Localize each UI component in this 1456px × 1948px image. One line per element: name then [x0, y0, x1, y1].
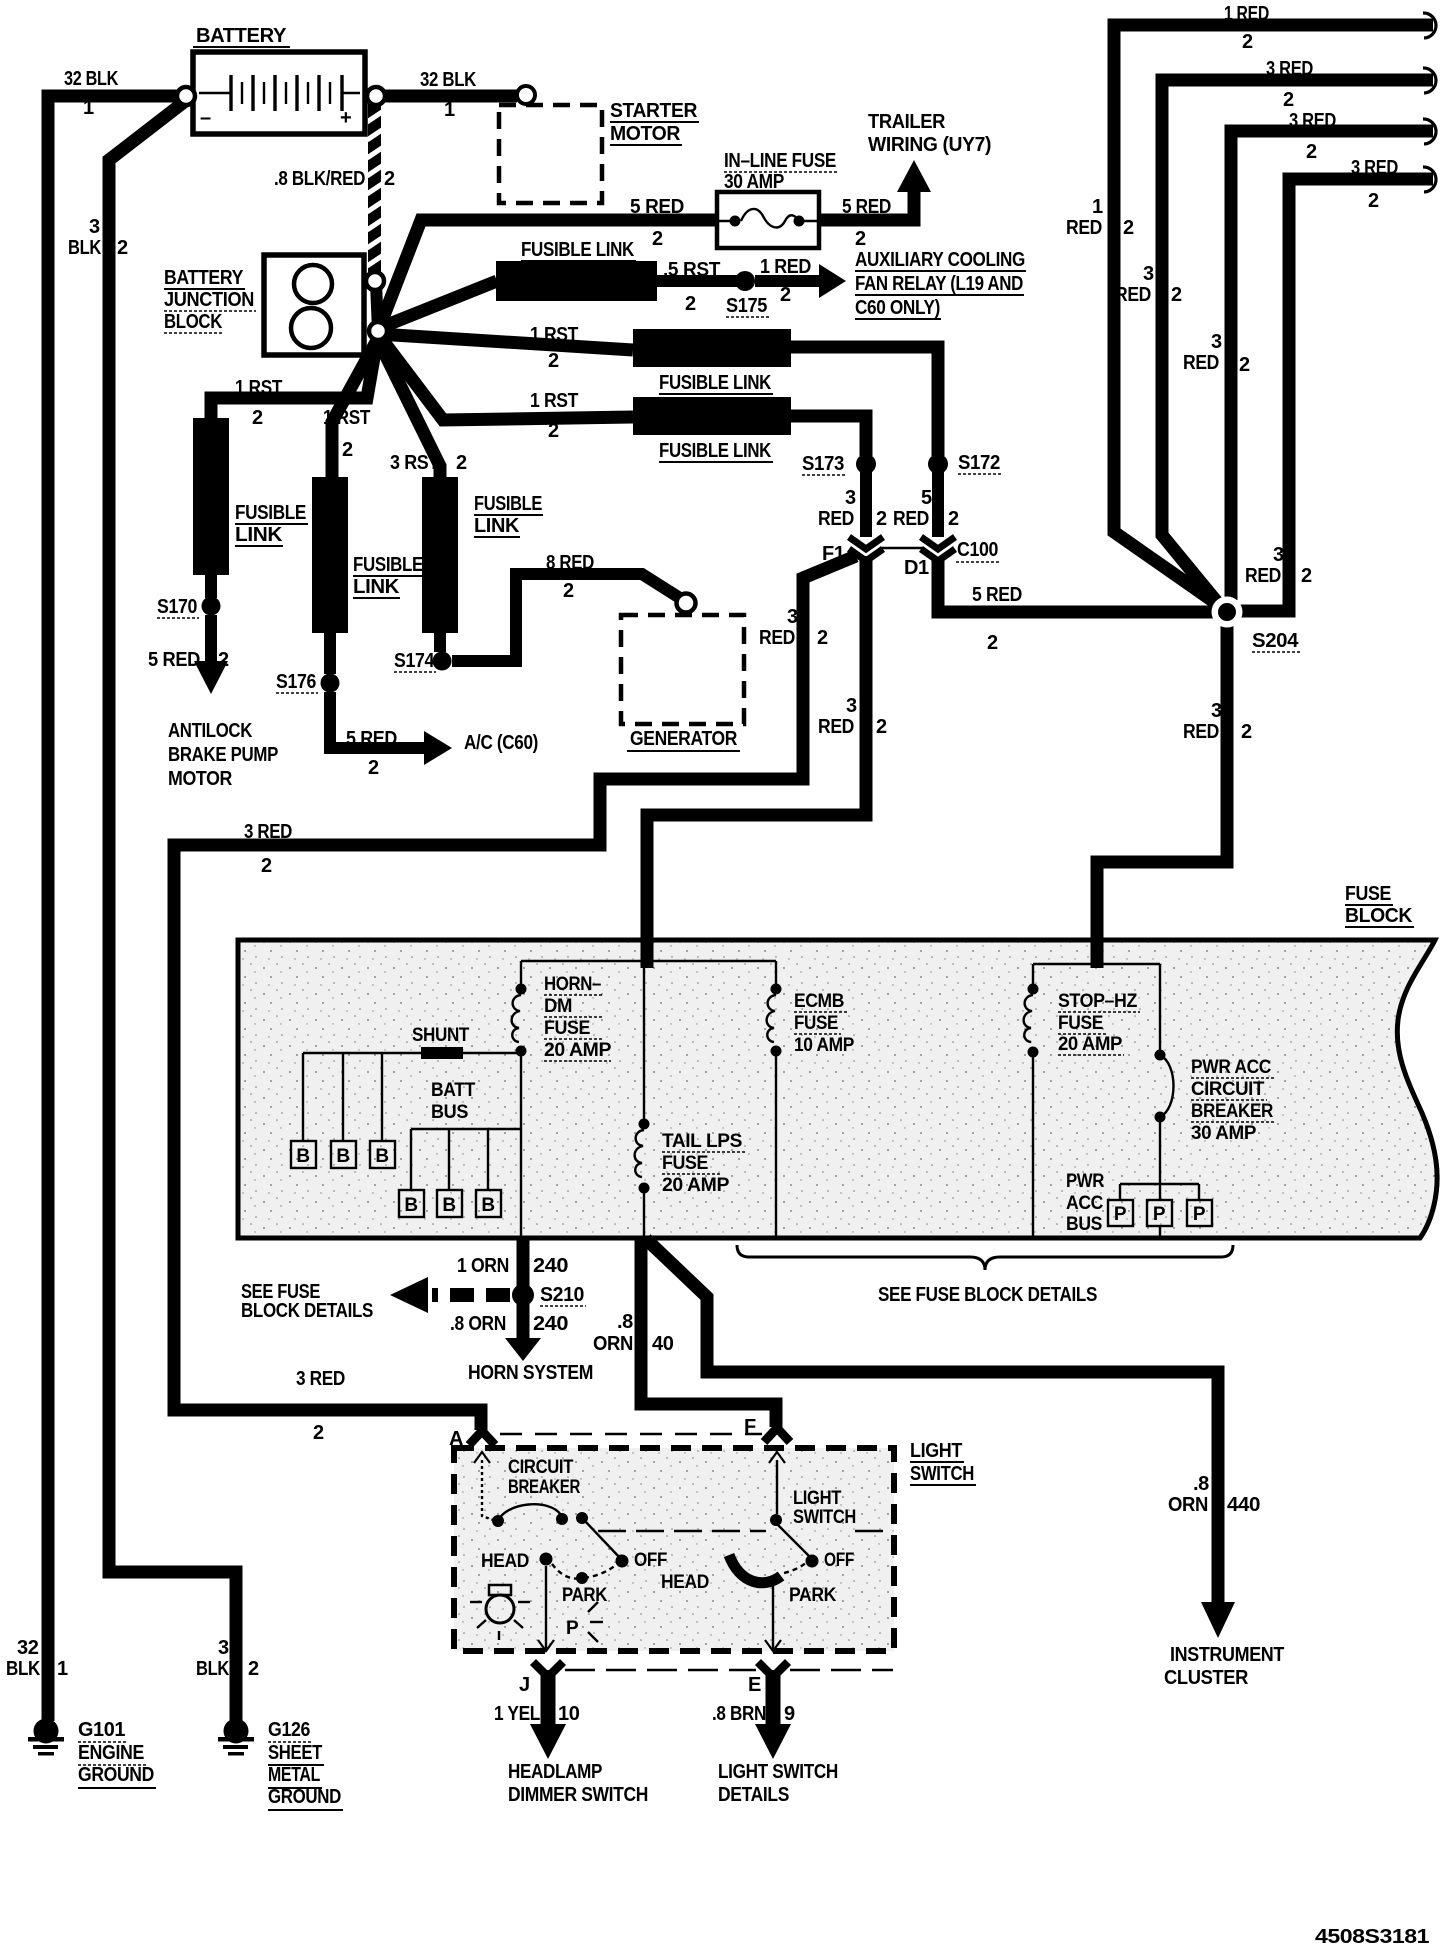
svg-text:OFF: OFF [634, 1550, 667, 1571]
svg-text:2: 2 [1171, 284, 1182, 306]
svg-text:2: 2 [876, 716, 887, 738]
svg-text:5 RED: 5 RED [148, 649, 200, 671]
svg-text:32: 32 [17, 1637, 39, 1659]
svg-text:RED: RED [1115, 284, 1151, 306]
svg-text:2: 2 [817, 627, 828, 649]
svg-text:1: 1 [444, 99, 455, 121]
svg-text:BRAKE PUMP: BRAKE PUMP [168, 744, 278, 766]
svg-text:INSTRUMENT: INSTRUMENT [1170, 1644, 1284, 1666]
svg-text:E: E [748, 1674, 761, 1696]
svg-text:S176: S176 [276, 671, 316, 693]
svg-text:METAL: METAL [268, 1764, 320, 1786]
svg-text:2: 2 [1239, 354, 1250, 376]
wire 5 RED C100 to S204 [938, 559, 1218, 654]
svg-text:RED: RED [818, 508, 854, 530]
svg-text:FUSIBLE LINK: FUSIBLE LINK [659, 440, 772, 462]
svg-text:BUS: BUS [431, 1102, 468, 1123]
wire 3 RED F1 branch to light switch A [174, 556, 856, 1444]
svg-text:FUSIBLE: FUSIBLE [353, 554, 423, 576]
svg-text:FUSIBLE LINK: FUSIBLE LINK [659, 372, 772, 394]
wire .5 RST fusible link branch [377, 281, 497, 329]
svg-text:2: 2 [548, 420, 559, 442]
terminal A chevron [449, 1428, 495, 1450]
pwr acc bus P terminals [1066, 1171, 1212, 1236]
svg-text:S210: S210 [540, 1284, 584, 1306]
svg-text:3: 3 [218, 1637, 229, 1659]
svg-text:S175: S175 [726, 295, 767, 317]
connector C100 / D1 [881, 537, 1000, 579]
svg-text:2: 2 [1241, 721, 1252, 743]
splice S176 [276, 633, 340, 693]
svg-text:P: P [1153, 1204, 1166, 1225]
battery terminal node right [367, 87, 385, 105]
svg-text:RED: RED [1245, 565, 1281, 587]
svg-text:2: 2 [1368, 190, 1379, 212]
svg-text:FUSE: FUSE [1345, 883, 1391, 905]
svg-text:BLOCK DETAILS: BLOCK DETAILS [241, 1300, 373, 1322]
svg-text:BLOCK: BLOCK [164, 311, 223, 333]
svg-text:PWR: PWR [1066, 1171, 1105, 1192]
svg-text:FUSIBLE: FUSIBLE [235, 502, 306, 524]
svg-text:LINK: LINK [353, 576, 400, 598]
svg-text:BLOCK: BLOCK [1345, 905, 1413, 927]
wire 8 RED S174 to generator [452, 552, 683, 661]
wire 3 RED top connector 4 [1240, 157, 1433, 611]
svg-text:P: P [566, 1618, 579, 1639]
wire .8 BLK/RED fusible link (hatched) [274, 103, 395, 275]
wire S172 to C100 [932, 472, 944, 537]
svg-text:2: 2 [313, 1422, 324, 1444]
svg-text:2: 2 [261, 855, 272, 877]
svg-text:3 RED: 3 RED [1266, 58, 1313, 80]
svg-text:P: P [1193, 1204, 1206, 1225]
svg-text:RED: RED [1066, 217, 1102, 239]
node: battery junction feed [376, 283, 378, 331]
shunt [412, 1025, 470, 1059]
splice S170 [157, 575, 221, 618]
svg-text:RED: RED [1183, 352, 1219, 374]
svg-text:3: 3 [787, 606, 798, 628]
svg-text:J: J [519, 1674, 530, 1696]
ID 4508S3181 [1315, 1926, 1429, 1948]
fusible link bar 2 (1 RST) [633, 329, 791, 394]
svg-text:1 ORN: 1 ORN [457, 1255, 509, 1277]
svg-text:2: 2 [456, 452, 467, 474]
wire dashed to see fuse block details [241, 1277, 510, 1322]
wire .8 ORN S210 to horn system [450, 1304, 593, 1384]
shunt bus row 1 [303, 1052, 521, 1054]
svg-text:32 BLK: 32 BLK [64, 68, 119, 90]
svg-text:GENERATOR: GENERATOR [630, 728, 738, 750]
node: fusible link tap [366, 272, 384, 290]
svg-text:240: 240 [533, 1313, 568, 1335]
svg-text:AUXILIARY COOLING: AUXILIARY COOLING [855, 249, 1025, 271]
svg-text:A: A [449, 1428, 463, 1450]
svg-text:3 RED: 3 RED [1351, 157, 1398, 179]
svg-text:2: 2 [685, 293, 696, 315]
svg-text:.8: .8 [1193, 1473, 1209, 1495]
svg-text:240: 240 [533, 1255, 568, 1277]
divider dashed line inside light switch [598, 1530, 889, 1532]
svg-text:ORN: ORN [1168, 1494, 1208, 1516]
splice S175 [726, 271, 769, 317]
svg-text:–: – [200, 107, 211, 129]
wire 3 RED top connector 3 [1183, 110, 1433, 600]
svg-text:DETAILS: DETAILS [718, 1784, 789, 1806]
svg-text:B: B [336, 1146, 349, 1167]
svg-text:FUSE: FUSE [662, 1153, 708, 1174]
svg-text:C100: C100 [957, 539, 998, 561]
splice S172 [893, 452, 1002, 530]
svg-text:HEAD: HEAD [661, 1572, 709, 1593]
svg-text:STOP–HZ: STOP–HZ [1058, 991, 1138, 1012]
svg-text:PWR ACC: PWR ACC [1191, 1057, 1272, 1078]
batt bus B terminals row 1 [291, 1053, 395, 1168]
svg-text:HORN–: HORN– [544, 974, 601, 995]
splice S204 [1212, 597, 1301, 653]
horn-dm fuse HORN-DM 20A [512, 961, 612, 1236]
svg-text:B: B [481, 1195, 494, 1216]
svg-text:2: 2 [117, 237, 128, 259]
svg-text:BATTERY: BATTERY [164, 267, 244, 289]
svg-text:B: B [404, 1195, 417, 1216]
svg-text:FUSE: FUSE [794, 1013, 838, 1034]
svg-text:SHUNT: SHUNT [412, 1025, 470, 1046]
svg-text:WIRING (UY7): WIRING (UY7) [868, 134, 991, 156]
svg-text:ORN: ORN [593, 1333, 633, 1355]
wire 5 RED S176 to A/C [330, 692, 538, 779]
svg-text:3: 3 [1143, 263, 1154, 285]
wire 3 RED top connector 2 [1115, 58, 1433, 608]
svg-text:1 RST: 1 RST [235, 377, 282, 399]
svg-text:BLK: BLK [68, 237, 102, 259]
svg-text:ENGINE: ENGINE [78, 1742, 144, 1764]
fuse block bus 2 (stop-hz feed) [1033, 963, 1160, 965]
svg-text:SEE FUSE BLOCK DETAILS: SEE FUSE BLOCK DETAILS [878, 1284, 1097, 1306]
svg-text:LIGHT SWITCH: LIGHT SWITCH [718, 1761, 838, 1783]
wire 1 RST junction to fusible link bar 6 (left) [211, 340, 377, 429]
svg-text:HORN SYSTEM: HORN SYSTEM [468, 1362, 593, 1384]
svg-text:3: 3 [1211, 700, 1222, 722]
svg-text:2: 2 [1283, 89, 1294, 111]
wire 3 BLK battery to G126 sheet metal ground [68, 102, 259, 1721]
svg-text:CLUSTER: CLUSTER [1164, 1667, 1249, 1689]
svg-text:C60 ONLY): C60 ONLY) [855, 297, 940, 319]
headlamp symbol [470, 1585, 530, 1640]
svg-text:MOTOR: MOTOR [610, 123, 681, 145]
ecmb fuse ECMB 10A [767, 961, 855, 1236]
wire 3 RST junction to fusible link bar 4 [377, 338, 467, 478]
svg-text:BATTERY: BATTERY [196, 25, 287, 47]
starter motor box [499, 100, 699, 203]
generator box [621, 615, 744, 751]
svg-text:FUSE: FUSE [544, 1018, 590, 1039]
svg-text:5 RED: 5 RED [842, 196, 891, 218]
svg-text:1: 1 [83, 97, 94, 119]
svg-text:8 RED: 8 RED [546, 552, 594, 574]
svg-text:3: 3 [1211, 331, 1222, 353]
svg-text:GROUND: GROUND [268, 1786, 341, 1808]
svg-text:2: 2 [855, 228, 866, 250]
fusible link bar 5 (1 RST, middle vertical) [312, 477, 425, 633]
svg-text:SWITCH: SWITCH [793, 1507, 856, 1528]
svg-text:20 AMP: 20 AMP [662, 1175, 730, 1196]
svg-text:3 RST: 3 RST [390, 452, 439, 474]
terminal J chevron [519, 1662, 563, 1696]
svg-text:32 BLK: 32 BLK [420, 69, 477, 91]
connector hook 4 [1423, 167, 1436, 192]
fuse block body [238, 883, 1437, 1238]
terminal E chevron [565, 1662, 893, 1696]
svg-text:440: 440 [1227, 1494, 1260, 1516]
wire 1 RED top connector [1066, 3, 1433, 606]
terminal F chevron [500, 1416, 790, 1442]
battery terminal node left [177, 87, 195, 105]
svg-text:2: 2 [1242, 31, 1253, 53]
wire .8 BRN 9 to light switch details [712, 1670, 838, 1806]
wire 5 RED in-line fuse to trailer wiring UY7 [816, 111, 991, 250]
ground G101 (engine ground) [28, 1719, 156, 1789]
svg-text:LINK: LINK [474, 515, 520, 537]
head/park selector (left, dimmer) [481, 1551, 617, 1651]
fusible link bar 3 (1 RST) [633, 397, 791, 462]
wire 1 RST junction to fusible link bar 5 (middle) [323, 342, 376, 478]
svg-text:RED: RED [893, 508, 929, 530]
wire 5 RED S170 to antilock brake pump motor [148, 615, 278, 790]
wire 32 BLK battery to G101 engine ground [6, 68, 180, 1721]
svg-text:3 RED: 3 RED [296, 1368, 345, 1390]
splice S174 [394, 633, 452, 672]
svg-text:2: 2 [876, 508, 887, 530]
svg-text:RED: RED [818, 716, 854, 738]
svg-text:3 RED: 3 RED [1289, 110, 1336, 132]
fusible link bar 1 (.5 RST) [496, 239, 657, 301]
svg-text:1: 1 [57, 1658, 68, 1680]
svg-text:OFF: OFF [824, 1550, 854, 1571]
connector hook 3 [1423, 119, 1436, 144]
svg-text:CIRCUIT: CIRCUIT [508, 1457, 574, 1478]
wire 32 BLK battery to starter motor [382, 69, 517, 121]
wire 1 RED to auxiliary cooling fan relay [755, 249, 1026, 319]
wire S173 to F1 [860, 472, 872, 537]
svg-text:SHEET: SHEET [268, 1742, 322, 1764]
svg-text:FAN RELAY (L19 AND: FAN RELAY (L19 AND [855, 273, 1023, 295]
fuse block bus 1 (batt bus feed) [521, 960, 776, 962]
svg-text:20 AMP: 20 AMP [544, 1040, 612, 1061]
svg-text:ACC: ACC [1066, 1193, 1104, 1214]
see fuse block details brace [737, 1245, 1233, 1306]
svg-text:ANTILOCK: ANTILOCK [168, 720, 253, 742]
svg-text:1 YEL: 1 YEL [494, 1703, 540, 1725]
circuit breaker (light switch internal) [474, 1452, 667, 1571]
svg-text:S173: S173 [802, 453, 844, 475]
svg-text:5 RED: 5 RED [346, 728, 397, 750]
wire 1 RST junction to fusible link bar 3 [378, 334, 633, 442]
svg-text:DIMMER SWITCH: DIMMER SWITCH [508, 1784, 648, 1806]
svg-text:B: B [375, 1146, 388, 1167]
wire .5 RST to S175 [657, 259, 737, 315]
in-line fuse 30 AMP [717, 150, 838, 248]
svg-text:RED: RED [1183, 721, 1219, 743]
park lamp P symbol [566, 1602, 603, 1642]
wire 1 YEL 10 to headlamp dimmer switch [494, 1670, 648, 1806]
svg-text:CIRCUIT: CIRCUIT [1191, 1079, 1265, 1100]
svg-text:IN–LINE FUSE: IN–LINE FUSE [724, 150, 836, 172]
pwr acc circuit breaker 30A [1155, 964, 1277, 1184]
wire .8 ORN fuse block tail lps to light switch F [641, 1239, 776, 1427]
svg-text:1 RST: 1 RST [530, 324, 578, 346]
wire 3 RED F1 to fuse block horn-dm [647, 556, 887, 968]
svg-text:S174: S174 [394, 650, 435, 672]
svg-text:BUS: BUS [1066, 1214, 1102, 1235]
splice S173 [802, 453, 887, 530]
svg-text:9: 9 [784, 1703, 795, 1725]
svg-text:3: 3 [1273, 544, 1284, 566]
svg-text:10 AMP: 10 AMP [794, 1035, 855, 1056]
battery [193, 25, 365, 134]
svg-text:GROUND: GROUND [78, 1764, 154, 1786]
svg-text:TAIL LPS: TAIL LPS [662, 1131, 742, 1152]
svg-text:2: 2 [1301, 565, 1312, 587]
svg-text:2: 2 [218, 649, 229, 671]
starter motor terminal node [517, 86, 535, 104]
svg-text:RED: RED [759, 627, 795, 649]
svg-text:P: P [1114, 1204, 1127, 1225]
svg-text:+: + [340, 107, 351, 129]
svg-text:D1: D1 [904, 557, 929, 579]
battery junction block [164, 255, 364, 355]
connector hook 2 [1423, 68, 1436, 93]
svg-text:G126: G126 [268, 1719, 310, 1741]
svg-text:STARTER: STARTER [610, 100, 698, 122]
svg-text:4508S3181: 4508S3181 [1315, 1926, 1429, 1948]
svg-text:2: 2 [252, 407, 263, 429]
svg-text:2: 2 [548, 350, 559, 372]
svg-text:BREAKER: BREAKER [508, 1477, 581, 1498]
svg-text:LIGHT: LIGHT [910, 1440, 962, 1462]
svg-text:1 RST: 1 RST [323, 407, 370, 429]
svg-text:SWITCH: SWITCH [910, 1463, 974, 1485]
svg-text:2: 2 [248, 1658, 259, 1680]
svg-text:2: 2 [368, 757, 379, 779]
svg-text:DM: DM [544, 996, 572, 1017]
svg-text:BREAKER: BREAKER [1191, 1101, 1274, 1122]
node: junction fan-out [369, 322, 387, 340]
svg-text:G101: G101 [78, 1719, 125, 1741]
svg-text:3: 3 [846, 695, 857, 717]
svg-text:HEADLAMP: HEADLAMP [508, 1761, 602, 1783]
fusible link bar 6 (1 RST, left vertical) [193, 418, 308, 575]
wire 3 RED S204 down to fuse block (stop-hz) [1097, 620, 1252, 968]
svg-text:30 AMP: 30 AMP [724, 171, 784, 193]
connector hook 1 [1423, 13, 1436, 38]
svg-text:2: 2 [987, 632, 998, 654]
batt bus B terminals row 2 [399, 1129, 521, 1217]
svg-text:20 AMP: 20 AMP [1058, 1034, 1123, 1055]
svg-text:2: 2 [342, 439, 353, 461]
svg-text:BLK: BLK [196, 1658, 230, 1680]
fusible link bar 4 (3 RST, vertical) [422, 477, 543, 633]
wire from bar 2 to S172 [789, 347, 938, 456]
svg-text:1: 1 [1092, 196, 1103, 218]
ground G126 (sheet metal ground) [218, 1719, 343, 1811]
svg-text:3: 3 [845, 487, 856, 509]
svg-text:FUSIBLE: FUSIBLE [474, 493, 542, 515]
splice S210 [512, 1284, 586, 1306]
batt bus label [431, 1080, 476, 1123]
svg-text:S204: S204 [1252, 630, 1299, 652]
svg-text:2: 2 [948, 508, 959, 530]
svg-text:5: 5 [921, 487, 932, 509]
stop-hz fuse STOP-HZ 20A [1024, 964, 1140, 1236]
svg-text:2: 2 [563, 580, 574, 602]
light switch box [454, 1440, 976, 1651]
svg-text:5 RED: 5 RED [630, 196, 684, 218]
svg-text:1 RED: 1 RED [1224, 3, 1269, 25]
svg-text:B: B [296, 1146, 309, 1167]
svg-text:2: 2 [1306, 141, 1317, 163]
svg-text:1 RED: 1 RED [760, 256, 811, 278]
wire 1 RST junction to fusible link bar 2 [378, 324, 633, 372]
svg-text:.8 BLK/RED: .8 BLK/RED [274, 168, 365, 190]
svg-text:LIGHT: LIGHT [793, 1488, 842, 1509]
svg-text:2: 2 [780, 284, 791, 306]
svg-text:FUSE: FUSE [1058, 1013, 1103, 1034]
svg-text:40: 40 [652, 1333, 674, 1355]
svg-text:LINK: LINK [235, 524, 283, 546]
wire 5 RED junction to in-line fuse [378, 196, 722, 331]
svg-text:2: 2 [384, 168, 395, 190]
svg-text:.5 RST: .5 RST [663, 259, 720, 281]
wire .8 ORN fuse block tail lps to instrument cluster [593, 1239, 1284, 1689]
svg-text:JUNCTION: JUNCTION [164, 289, 254, 311]
wire from bar 3 to S173 [789, 416, 866, 456]
svg-text:1 RST: 1 RST [530, 390, 578, 412]
svg-text:FUSIBLE LINK: FUSIBLE LINK [521, 239, 635, 261]
svg-text:ECMB: ECMB [794, 991, 844, 1012]
svg-text:PARK: PARK [789, 1585, 837, 1606]
svg-text:S170: S170 [157, 596, 197, 618]
svg-text:TRAILER: TRAILER [868, 111, 946, 133]
svg-text:BLK: BLK [6, 1658, 41, 1680]
svg-text:30 AMP: 30 AMP [1191, 1123, 1257, 1144]
svg-text:5 RED: 5 RED [972, 584, 1022, 606]
tail lps fuse TAIL LPS 20A [635, 961, 745, 1236]
svg-text:MOTOR: MOTOR [168, 768, 233, 790]
svg-text:S172: S172 [958, 452, 1000, 474]
light switch selector (right) [661, 1452, 856, 1651]
svg-text:BATT: BATT [431, 1080, 476, 1101]
svg-text:B: B [442, 1195, 455, 1216]
generator terminal node [677, 594, 696, 613]
svg-text:3: 3 [89, 216, 100, 238]
svg-text:HEAD: HEAD [481, 1551, 529, 1572]
wire 1 ORN fuse block to S210 [457, 1238, 568, 1288]
svg-text:A/C (C60): A/C (C60) [464, 732, 538, 754]
connector F1 [822, 537, 883, 565]
svg-text:.8: .8 [617, 1311, 633, 1333]
svg-text:10: 10 [558, 1703, 580, 1725]
svg-text:PARK: PARK [562, 1585, 608, 1606]
svg-text:3 RED: 3 RED [244, 821, 292, 843]
svg-text:2: 2 [1123, 217, 1134, 239]
svg-text:2: 2 [652, 228, 663, 250]
svg-text:.8 ORN: .8 ORN [450, 1313, 506, 1335]
svg-text:.8 BRN: .8 BRN [712, 1703, 766, 1725]
